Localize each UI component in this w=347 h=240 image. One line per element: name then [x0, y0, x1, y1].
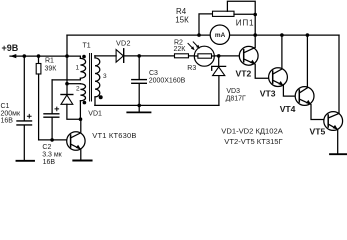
svg-text:22К: 22К	[174, 46, 187, 53]
wire: right rail drop to VT5 collector	[338, 35, 340, 113]
core	[90, 54, 92, 102]
transistor VT1	[67, 119, 85, 160]
common bar (C3)	[127, 111, 150, 113]
svg-text:VT1 КТ630В: VT1 КТ630В	[92, 131, 136, 140]
common bar (C1 negative terminal)	[17, 160, 35, 162]
label T1 and winding numbers	[76, 43, 108, 93]
node: input/R1	[37, 54, 41, 58]
resistor R4 (with tap loop)	[199, 1, 255, 35]
svg-text:16В: 16В	[1, 118, 14, 125]
zener diode VD3	[212, 56, 226, 106]
label C1 200мк 16В	[1, 103, 21, 124]
svg-text:200мк: 200мк	[1, 110, 21, 117]
transistor VT3	[269, 35, 300, 96]
label C2 3.3мк 16В	[42, 144, 62, 166]
node: input arrow terminal	[10, 54, 16, 58]
wire: secondary top net (w3 - VD2 - C3 - R2)	[95, 55, 116, 57]
svg-text:VD1: VD1	[88, 111, 102, 118]
diode VD1	[61, 95, 81, 120]
svg-text:R3: R3	[187, 65, 196, 72]
node: rail / VT4 collector	[306, 33, 310, 37]
node: C3 top	[137, 54, 141, 58]
svg-text:3: 3	[103, 73, 107, 80]
svg-text:C2: C2	[42, 144, 51, 151]
svg-text:mA: mA	[215, 32, 226, 39]
common bar (VT5 emitter)	[330, 153, 347, 155]
node: VD3 top	[217, 54, 221, 58]
svg-text:VT5: VT5	[310, 126, 326, 136]
node: input/rail/w1	[65, 54, 69, 58]
svg-text:VT4: VT4	[280, 104, 296, 114]
svg-text:VT2-VT5 КТ315Г: VT2-VT5 КТ315Г	[224, 137, 282, 146]
winding 2 polarity dot	[83, 101, 87, 105]
wire: secondary bottom return (w3 bottom - VD3 anode)	[95, 104, 219, 106]
light arrows	[188, 43, 193, 49]
diode VD2	[116, 49, 174, 63]
svg-text:Д817Г: Д817Г	[226, 96, 246, 103]
transistor VT5	[324, 112, 343, 154]
photoresistor R3	[188, 42, 244, 66]
svg-text:VD2: VD2	[116, 39, 131, 48]
svg-text:ИП1: ИП1	[236, 19, 254, 28]
svg-text:1: 1	[76, 64, 80, 71]
svg-text:+9В: +9В	[2, 43, 19, 53]
transformer T1	[52, 43, 107, 120]
wire: top rail (+9B bus)	[67, 34, 339, 36]
meter IP1 (mA)	[210, 25, 229, 44]
svg-text:2: 2	[76, 86, 80, 93]
svg-text:VD3: VD3	[226, 88, 240, 95]
svg-text:16В: 16В	[43, 159, 56, 166]
label C3 2000X160B	[149, 70, 186, 85]
winding 2	[67, 83, 80, 85]
capacitor C3	[132, 56, 147, 112]
transistor VT2	[239, 35, 272, 78]
wire: +9B input line	[10, 55, 67, 57]
winding 3 polarity dot	[99, 95, 103, 99]
common bar (VT1 emitter)	[73, 160, 91, 162]
resistor R1	[36, 56, 41, 140]
winding 1 (primary)	[67, 56, 80, 58]
label R1 39K	[45, 57, 58, 72]
node: rail / VT2 collector	[253, 33, 257, 37]
node: R4 right / top loop	[253, 13, 257, 17]
label R4 15K	[175, 7, 189, 25]
svg-text:VT3: VT3	[260, 88, 276, 98]
svg-text:C3: C3	[149, 70, 158, 77]
svg-text:C1: C1	[1, 103, 10, 110]
node: rail / R4 left	[197, 33, 201, 37]
svg-text:2000Х160В: 2000Х160В	[149, 78, 186, 85]
capacitor C2	[44, 80, 59, 140]
svg-text:VT2: VT2	[236, 68, 252, 78]
svg-text:15К: 15К	[175, 15, 189, 24]
transistor VT4	[295, 35, 328, 119]
svg-text:R1: R1	[45, 57, 54, 64]
svg-text:39К: 39К	[45, 66, 58, 73]
label R2 22K	[174, 39, 187, 53]
node: C3 bottom / secondary return	[137, 104, 141, 108]
node: C2 / base line	[50, 138, 54, 142]
svg-text:T1: T1	[83, 43, 91, 50]
winding 3 (secondary)	[94, 56, 96, 58]
capacitor C1	[17, 56, 32, 160]
wire: +9B vertical from rail to VD1 cathode	[66, 35, 68, 94]
node: rail / VT3 collector	[280, 33, 284, 37]
wire: base line R1/C2 to VT1 base	[39, 139, 71, 141]
svg-text:3.3 мк: 3.3 мк	[42, 152, 62, 159]
node: VT1 collector / w2 bottom / VD1 anode	[79, 117, 83, 121]
node: input/C1	[23, 54, 27, 58]
winding 1 polarity dot	[82, 55, 86, 59]
node: w2 top / VD1 cathode	[65, 82, 69, 86]
label VD3 Д817Г	[226, 88, 246, 103]
resistor R2	[175, 54, 189, 58]
svg-text:VD1-VD2 КД102А: VD1-VD2 КД102А	[221, 126, 283, 135]
